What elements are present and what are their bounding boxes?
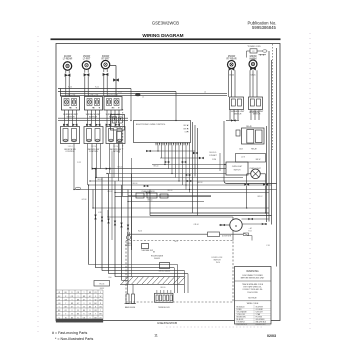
- feeder splice: [135, 93, 140, 96]
- svg-text:5995386845: 5995386845: [252, 25, 277, 30]
- svg-text:L1 H1 L2 H2: L1 H1 L2 H2: [89, 95, 99, 97]
- wire lamp drops: [247, 186, 266, 213]
- oven cavity outline: [126, 241, 233, 303]
- svg-text:L1 H1 L2 H2: L1 H1 L2 H2: [66, 95, 76, 97]
- svg-text:WITH TAPE WHEN DIS-: WITH TAPE WHEN DIS-: [243, 286, 262, 289]
- right surface switch RS1: [230, 97, 244, 110]
- bus mid labels: [209, 152, 217, 161]
- wire right riser R4: [276, 48, 278, 267]
- wire row link A: [58, 117, 128, 119]
- svg-text:BAKE ELEM: BAKE ELEM: [125, 306, 136, 309]
- wire bus H10: [115, 192, 269, 194]
- bus end bowtie B: [199, 157, 204, 159]
- lamp bowtie left: [244, 183, 249, 185]
- svg-text:RELAY: RELAY: [251, 148, 258, 151]
- svg-text:TB-1: TB-1: [174, 241, 178, 243]
- svg-text:*POWER CORD: *POWER CORD: [247, 46, 261, 48]
- svg-text:* = Non-Illustrated Parts: * = Non-Illustrated Parts: [55, 337, 93, 341]
- svg-text:Y-16: Y-16: [266, 245, 269, 247]
- wire unit LR to switch: [66, 77, 69, 97]
- wire left feeder A: [58, 89, 131, 121]
- wire right riser R1: [266, 126, 268, 222]
- wire power cord lead: [247, 50, 267, 58]
- wire unit RF to switch: [104, 76, 107, 97]
- element hatch bar: [120, 277, 185, 285]
- console dashed separator: [122, 109, 124, 151]
- connector plug right P5: [229, 68, 234, 77]
- oven sensor probe: [128, 191, 211, 198]
- surface unit right front: [101, 56, 110, 72]
- wire bus H5: [107, 173, 226, 175]
- svg-text:1800W: 1800W: [249, 56, 257, 58]
- selector element E1: [117, 132, 122, 154]
- svg-text:CONTROL: CONTROL: [65, 151, 74, 153]
- wire mid drop B: [192, 122, 194, 213]
- svg-text:GY-18: GY-18: [82, 199, 87, 201]
- wire mid drop C: [194, 125, 196, 177]
- svg-text:ELECTRONIC OVEN CONTROL: ELECTRONIC OVEN CONTROL: [136, 124, 166, 126]
- svg-text:3000W: 3000W: [154, 258, 160, 260]
- title rule: [51, 38, 281, 40]
- wire border drop A: [60, 89, 62, 97]
- svg-text:BK-14: BK-14: [154, 166, 159, 168]
- wire riser V3: [101, 178, 103, 271]
- wire bottom bus B3: [102, 270, 185, 272]
- hidden bake label: [151, 255, 164, 261]
- svg-text:GSE3W2WCB: GSE3W2WCB: [157, 321, 177, 325]
- wire switch S1 to K1: [65, 110, 77, 127]
- surface switch S1: [62, 95, 80, 110]
- thermal switch: [141, 244, 153, 253]
- bus end bowtie A: [193, 152, 198, 154]
- wire mid drop D: [197, 128, 199, 216]
- wire bus H2: [160, 157, 201, 159]
- label block K1: [64, 149, 76, 153]
- label relay: [239, 148, 257, 151]
- svg-text:11: 11: [154, 334, 158, 338]
- wire label column stub: [219, 153, 221, 171]
- wire mid link B: [150, 215, 272, 217]
- label switch S1: [63, 113, 78, 119]
- wire bottom bus B1: [89, 264, 178, 266]
- wire bus H8: [88, 184, 272, 186]
- svg-text:GSE3W2WCB: GSE3W2WCB: [152, 21, 179, 26]
- wire bottom bus B2: [96, 267, 175, 269]
- wire branch RF plug: [110, 66, 116, 97]
- svg-text:R-12: R-12: [95, 87, 99, 89]
- wire bus H11: [115, 195, 211, 197]
- wire bus H12: [128, 201, 204, 203]
- door lock label: [212, 257, 224, 262]
- svg-text:SWITCH: SWITCH: [213, 260, 221, 262]
- wire stack riser B: [131, 158, 133, 277]
- wire mid link A: [150, 212, 269, 214]
- svg-text:BR-12: BR-12: [258, 196, 263, 198]
- wire bus H3: [152, 164, 225, 166]
- wire mid branch B: [108, 210, 233, 241]
- svg-text:OVEN SW: OVEN SW: [114, 127, 122, 129]
- broil element box: [159, 263, 171, 273]
- wire feeder L2 to right: [60, 95, 227, 97]
- svg-text:BK-14: BK-14: [168, 190, 173, 192]
- bundle inline bowties: [94, 215, 129, 230]
- svg-text:BK W: BK W: [256, 159, 261, 161]
- wire switch S2 to K2: [88, 110, 100, 127]
- wire riser V1: [88, 185, 90, 265]
- label block K2: [88, 149, 100, 153]
- wire prong drops: [128, 284, 134, 294]
- label switch S3: [106, 113, 121, 119]
- svg-text:WIRING DIAGRAM: WIRING DIAGRAM: [142, 33, 183, 38]
- wire stack riser A: [111, 152, 113, 240]
- connector plug P4: [113, 79, 118, 82]
- control block K1: [61, 127, 80, 149]
- wire color code table: [56, 290, 103, 322]
- selector switch S4: [111, 115, 125, 131]
- svg-text:V-20: V-20: [98, 212, 102, 214]
- wire EOC drops: [158, 145, 190, 193]
- svg-text:BEFORE SERVICING UNIT: BEFORE SERVICING UNIT: [241, 278, 265, 280]
- wire feeder L1 to right: [60, 92, 227, 94]
- svg-text:BK-14: BK-14: [198, 182, 203, 184]
- terminal connector block: [155, 290, 174, 302]
- lamp bowtie right: [263, 183, 268, 185]
- svg-text:R-8: R-8: [109, 277, 112, 279]
- oven sensor probe: [125, 232, 133, 247]
- publication number: [248, 20, 277, 30]
- svg-text:THERMAL SW: THERMAL SW: [141, 249, 153, 252]
- wire bottom bus B4: [109, 273, 189, 275]
- surface unit right 1: [226, 56, 236, 69]
- svg-text:L1: L1: [142, 97, 144, 99]
- wire bus H9: [74, 189, 277, 191]
- wire motor left lead: [219, 224, 230, 226]
- EOC pin comb: [156, 143, 190, 146]
- wire junction oval on bus: [75, 187, 80, 189]
- door lock motor M1: [230, 219, 242, 231]
- label block K3: [110, 149, 122, 153]
- wire unit LF to switch: [85, 76, 88, 96]
- scatter labels: [68, 87, 270, 289]
- wire bus H7: [90, 180, 267, 182]
- svg-text:W-16: W-16: [138, 231, 142, 233]
- console outline right cluster: [224, 121, 277, 184]
- wire row link B: [58, 120, 128, 122]
- oven light switch box: [226, 162, 248, 175]
- connector plug P3: [103, 73, 108, 76]
- junction box J1: [94, 281, 110, 291]
- svg-text:SWITCH: SWITCH: [234, 169, 241, 171]
- surface switch S3: [104, 95, 122, 110]
- svg-text:DOOR MTR: DOOR MTR: [222, 235, 232, 237]
- label switch S2: [86, 113, 101, 119]
- bake element terminals: [125, 294, 137, 304]
- wire hatch feeds: [115, 277, 128, 281]
- wire mid drop A: [149, 190, 151, 216]
- svg-text:L2: L2: [204, 92, 206, 94]
- svg-text:OR-14: OR-14: [194, 224, 199, 226]
- wire bus H6: [96, 177, 243, 179]
- right surface switch RS2: [249, 97, 263, 110]
- wire code table: [236, 305, 271, 326]
- svg-text:OVEN LIGHT: OVEN LIGHT: [232, 166, 242, 168]
- svg-text:TRACE WIRE ARE CODE: TRACE WIRE ARE CODE: [242, 283, 264, 286]
- wire right unit drops: [229, 70, 258, 97]
- supply cord terminals: [259, 54, 267, 55]
- svg-text:DISCONNECT POWER: DISCONNECT POWER: [242, 275, 263, 277]
- svg-text:OVEN SENSOR: OVEN SENSOR: [141, 191, 155, 193]
- wire left feeder B: [58, 92, 176, 121]
- label right switch RS1: [231, 110, 246, 116]
- control block K2: [84, 127, 103, 149]
- connector plug P2: [84, 73, 89, 76]
- wire right switch drops: [226, 110, 260, 122]
- wire riser V5: [114, 181, 116, 277]
- svg-text:DLB N.O.: DLB N.O.: [209, 152, 217, 154]
- wire riser V2: [95, 169, 97, 268]
- wire labels on bus: [98, 166, 203, 202]
- svg-text:PLACE WIRE: PLACE WIRE: [247, 291, 258, 294]
- svg-text:LT-REAR: LT-REAR: [63, 58, 73, 61]
- wire mid branch: [93, 190, 269, 209]
- svg-text:BK-8: BK-8: [118, 92, 122, 94]
- wire riser V8: [131, 174, 133, 251]
- wire riser V7: [127, 190, 129, 285]
- control block K3: [106, 127, 125, 149]
- svg-text:PLUG: PLUG: [99, 284, 104, 286]
- svg-text:BK-14: BK-14: [133, 183, 138, 185]
- wire bus H4: [94, 168, 226, 170]
- svg-text:NOTICE: NOTICE: [248, 298, 257, 300]
- terminal strip box: [236, 154, 266, 163]
- junction dots: [73, 120, 266, 218]
- svg-text:WIRE CODE: WIRE CODE: [247, 303, 259, 305]
- svg-text:LT-FRT: LT-FRT: [83, 59, 91, 61]
- diagram border: [56, 44, 280, 321]
- surface unit left front: [82, 56, 91, 73]
- svg-text:L1 H1 L2 H2: L1 H1 L2 H2: [108, 95, 118, 97]
- wire block drops to bus: [74, 144, 123, 197]
- svg-text:CONNECT WIRE AND RE-: CONNECT WIRE AND RE-: [242, 288, 263, 291]
- surface unit right 2: [249, 56, 257, 69]
- wire right riser R3: [271, 60, 273, 225]
- svg-text:P-22: P-22: [77, 162, 81, 164]
- wire switch S3 to K3: [107, 110, 119, 127]
- wire right riser R2: [268, 51, 270, 222]
- console dashed line: [272, 44, 274, 150]
- svg-text:TERM BLOCK: TERM BLOCK: [158, 307, 170, 309]
- wire bottom right drops: [174, 265, 188, 294]
- svg-text:CONTACT: CONTACT: [209, 154, 217, 157]
- wire bus H1: [146, 150, 195, 152]
- svg-text:3000W: 3000W: [102, 56, 110, 58]
- oven lamp: [247, 169, 266, 183]
- fuse plug connector: [244, 230, 253, 240]
- svg-text:RELAY: RELAY: [246, 125, 253, 128]
- relay DLB: [236, 125, 264, 144]
- wire riser V4: [108, 174, 110, 274]
- power cord box: [250, 49, 257, 53]
- svg-text:02/03: 02/03: [267, 334, 276, 338]
- svg-text:WARNING: WARNING: [246, 269, 258, 273]
- electronic oven control U1: [134, 121, 191, 143]
- svg-text:2100W: 2100W: [64, 56, 72, 58]
- connector plug right P6: [250, 67, 255, 76]
- svg-text:# = Fast-moving Parts: # = Fast-moving Parts: [52, 331, 87, 335]
- warning notice box: [235, 267, 272, 325]
- svg-text:CB-2A CB-2B: CB-2A CB-2B: [249, 111, 260, 114]
- wire motor right leads: [242, 218, 270, 230]
- svg-text:W-10: W-10: [68, 87, 72, 89]
- svg-text:W-14: W-14: [216, 262, 220, 264]
- inter-row bowties: [63, 124, 120, 126]
- surface switch S2: [85, 95, 103, 110]
- surface unit left rear: [63, 56, 73, 74]
- wire riser V6: [121, 185, 123, 280]
- svg-text:COM: COM: [212, 159, 217, 161]
- svg-text:2500W: 2500W: [228, 56, 236, 58]
- svg-text:1500W: 1500W: [83, 56, 91, 58]
- thermal fuse F1: [128, 232, 243, 237]
- connector plug P1: [65, 74, 70, 77]
- svg-text:BK-14: BK-14: [118, 167, 123, 169]
- svg-text:BK-10: BK-10: [161, 287, 166, 289]
- bus bowties mid: [92, 150, 192, 194]
- label right switch RS2: [250, 110, 265, 116]
